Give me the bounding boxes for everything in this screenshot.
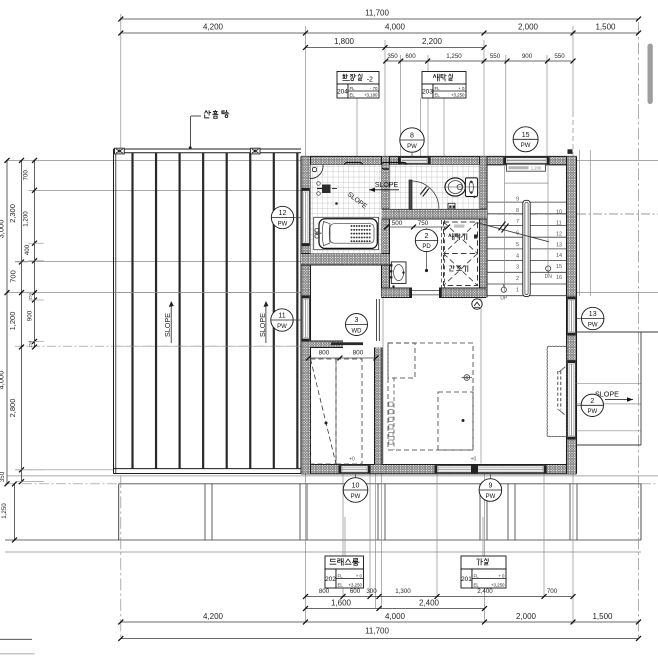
svg-text:1,200: 1,200 (23, 211, 30, 227)
svg-text:800: 800 (353, 350, 364, 357)
svg-text:2,400: 2,400 (477, 588, 493, 595)
svg-text:3,000: 3,000 (0, 220, 6, 239)
svg-text:2,000: 2,000 (518, 23, 539, 32)
svg-text:550: 550 (554, 53, 565, 60)
svg-text:1,200: 1,200 (8, 312, 17, 331)
svg-text:4: 4 (516, 253, 519, 259)
svg-text:SLOPE: SLOPE (163, 313, 172, 337)
svg-text:1,250: 1,250 (446, 53, 462, 60)
svg-text:700: 700 (9, 270, 18, 283)
svg-text:15: 15 (522, 132, 530, 139)
svg-text:- 70: - 70 (370, 86, 378, 91)
svg-text:15: 15 (556, 264, 562, 270)
svg-text:203: 203 (422, 88, 433, 95)
svg-text:11,700: 11,700 (365, 627, 389, 636)
svg-text:4,200: 4,200 (203, 612, 224, 621)
svg-text:900: 900 (522, 53, 533, 60)
svg-text:PW: PW (588, 322, 598, 328)
svg-text:750: 750 (418, 220, 429, 227)
svg-text:2,000: 2,000 (516, 612, 537, 621)
svg-text:800: 800 (319, 350, 330, 357)
svg-text:204: 204 (337, 88, 348, 95)
svg-text:12: 12 (279, 210, 287, 217)
svg-text:350: 350 (387, 53, 398, 60)
svg-text:800: 800 (319, 588, 330, 595)
svg-text:PW: PW (278, 221, 288, 227)
svg-text:350: 350 (0, 471, 6, 482)
svg-text:3: 3 (355, 317, 359, 324)
svg-text:600: 600 (405, 53, 416, 60)
svg-text:EL: EL (474, 582, 480, 587)
svg-text:PW: PW (521, 143, 531, 149)
svg-text:13: 13 (589, 311, 597, 318)
svg-text:EL: EL (350, 92, 356, 97)
svg-text:600: 600 (350, 588, 361, 595)
svg-text:10: 10 (352, 483, 360, 490)
svg-text:4,000: 4,000 (385, 23, 406, 32)
svg-text:UP: UP (500, 296, 508, 302)
svg-text:+ 0: + 0 (458, 86, 465, 91)
svg-text:2,400: 2,400 (419, 599, 440, 608)
svg-text:3: 3 (516, 265, 519, 271)
svg-text:EL: EL (338, 582, 344, 587)
svg-text:WD: WD (352, 328, 363, 334)
svg-text:1,600: 1,600 (331, 599, 352, 608)
svg-text:201: 201 (461, 576, 472, 583)
svg-text:-2: -2 (367, 76, 373, 83)
svg-text:150: 150 (28, 292, 33, 299)
svg-text:5: 5 (516, 242, 519, 248)
svg-text:FL: FL (338, 573, 344, 578)
svg-text:+3,250: +3,250 (491, 582, 505, 587)
svg-text:PW: PW (351, 494, 361, 500)
svg-text:4,000: 4,000 (385, 612, 406, 621)
svg-text:1,200: 1,200 (531, 165, 542, 170)
svg-text:2,800: 2,800 (8, 399, 17, 418)
svg-text:1,800: 1,800 (334, 37, 355, 46)
svg-text:2: 2 (516, 276, 519, 282)
svg-text:16: 16 (556, 275, 562, 281)
svg-text:8: 8 (410, 133, 414, 140)
svg-text:7: 7 (516, 219, 519, 225)
svg-text:10: 10 (556, 210, 562, 216)
svg-text:2,300: 2,300 (8, 204, 17, 223)
svg-text:+ 0: + 0 (498, 573, 505, 578)
svg-text:SLOPE: SLOPE (375, 182, 399, 189)
svg-text:FL: FL (474, 573, 480, 578)
svg-text:11,700: 11,700 (365, 9, 389, 18)
svg-text:1,500: 1,500 (595, 23, 616, 32)
svg-text:DN: DN (545, 274, 553, 280)
svg-text:14: 14 (556, 253, 562, 259)
svg-text:11: 11 (278, 313, 285, 320)
svg-text:9: 9 (516, 197, 519, 203)
svg-text:PD: PD (422, 244, 431, 250)
svg-text:700: 700 (547, 588, 558, 595)
svg-text:900: 900 (27, 310, 34, 321)
svg-text:+0: +0 (349, 457, 355, 463)
svg-text:+3,180: +3,180 (364, 92, 378, 97)
svg-text:550: 550 (490, 53, 501, 60)
svg-text:+ 0: + 0 (356, 573, 363, 578)
svg-text:500: 500 (392, 220, 403, 227)
svg-text:150: 150 (28, 340, 33, 347)
svg-text:4,000: 4,000 (0, 371, 6, 390)
svg-text:FL: FL (435, 86, 441, 91)
svg-text:4,200: 4,200 (203, 23, 224, 32)
svg-text:EL: EL (435, 92, 441, 97)
svg-text:1,250: 1,250 (1, 503, 8, 519)
svg-text:+3,250: +3,250 (451, 92, 465, 97)
svg-text:PW: PW (407, 144, 417, 150)
svg-text:1,500: 1,500 (592, 612, 613, 621)
svg-text:700: 700 (23, 170, 30, 181)
svg-text:300: 300 (366, 588, 377, 595)
svg-text:1: 1 (516, 287, 519, 293)
svg-text:+0: +0 (471, 457, 477, 463)
svg-text:PW: PW (587, 409, 597, 415)
svg-text:11: 11 (556, 221, 562, 227)
svg-text:2: 2 (425, 233, 429, 240)
svg-text:SLOPE: SLOPE (258, 313, 267, 337)
svg-text:9: 9 (488, 483, 492, 490)
svg-text:2: 2 (590, 398, 594, 405)
svg-text:+3,250: +3,250 (348, 582, 362, 587)
svg-text:PW: PW (277, 324, 287, 330)
svg-text:12: 12 (556, 231, 562, 237)
svg-text:2,200: 2,200 (422, 37, 443, 46)
svg-text:1,300: 1,300 (395, 588, 411, 595)
svg-text:PW: PW (486, 494, 496, 500)
svg-text:400: 400 (24, 244, 31, 255)
svg-text:8: 8 (516, 208, 519, 214)
svg-text:FL: FL (350, 86, 356, 91)
svg-text:202: 202 (325, 576, 336, 583)
svg-text:13: 13 (556, 242, 562, 248)
